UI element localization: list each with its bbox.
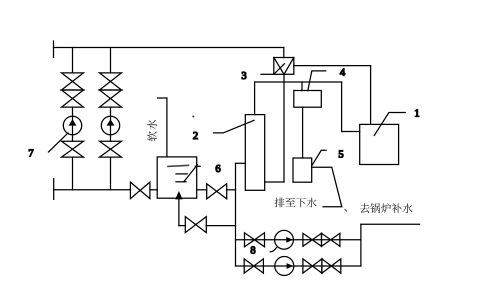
wire tank drain run [179, 225, 236, 227]
label leader 3 [261, 73, 274, 75]
label drain to sewer 排至下水 [275, 198, 317, 208]
boiler feed tank (item 1) [360, 124, 399, 164]
tank (soft water tank) [157, 157, 197, 198]
stray dot [192, 116, 194, 118]
pump P1 (vertical) [63, 116, 81, 134]
label leader 5 [312, 150, 326, 166]
valve line2 discharge B [322, 259, 341, 273]
wire cross header [255, 82, 342, 115]
wire column 2 bottom [110, 157, 112, 190]
wire discharge riser [360, 224, 362, 266]
wire suction manifold riser [236, 163, 246, 266]
ion exchanger column (item 2) [245, 115, 264, 191]
wire bottom-left header [54, 179, 158, 200]
wire to softener tank 1 [342, 82, 360, 132]
svg-text:6: 6 [215, 164, 220, 175]
label 7 [28, 149, 33, 160]
wire column 1 bottom [72, 157, 74, 190]
valve on bottom header [130, 182, 150, 199]
wire filter outlet down [265, 74, 284, 182]
valve column 1 lower [62, 141, 84, 157]
valve line2 discharge A [303, 259, 322, 273]
label leader 4 [308, 71, 326, 91]
valve column 2 lower [100, 141, 122, 157]
label 6 [215, 164, 220, 175]
valve line1 discharge B [322, 233, 340, 246]
valve line2 suction [244, 259, 263, 273]
svg-text:2: 2 [193, 131, 198, 142]
pump P3 (line 1) [275, 230, 294, 249]
drain leader line [312, 167, 342, 207]
pump P4 (line 2) [275, 257, 294, 276]
punctuation mark [344, 209, 347, 212]
pump P2 (vertical) [101, 116, 119, 134]
valve pair column 2 [100, 73, 122, 107]
wire column 1 drop [72, 48, 74, 73]
measuring box (item 5) [293, 158, 312, 182]
wire boiler make-up outlet [361, 223, 420, 225]
wire filter outlet right [294, 66, 371, 125]
wire column 2 mid [110, 107, 112, 141]
valve line1 suction [245, 233, 265, 247]
wire tank outlet [197, 189, 236, 191]
wire pump line 1 [236, 239, 361, 241]
svg-text:4: 4 [340, 67, 346, 78]
wire soft-water inlet [158, 98, 167, 157]
wire box4 to box5 [302, 107, 304, 158]
label leader 2 [214, 120, 255, 133]
label 3 [241, 71, 246, 82]
svg-text:3: 3 [241, 71, 246, 82]
label 4 [340, 67, 346, 78]
wire pump line 2 [236, 265, 361, 267]
wire top supply header [54, 41, 284, 58]
valve line1 discharge A [303, 233, 322, 246]
svg-text:5: 5 [338, 149, 343, 160]
svg-text:7: 7 [28, 149, 33, 160]
label 8 [250, 246, 255, 257]
svg-text:1: 1 [414, 109, 419, 120]
label soft water 软水 [147, 120, 157, 141]
valve V6 [207, 184, 227, 199]
tank bottom inlet arrow [175, 191, 182, 226]
valve tank drain [185, 217, 206, 233]
wire column 1 mid [72, 107, 74, 141]
level gauge marks in tank [168, 165, 200, 182]
wire column 2 drop [110, 48, 112, 73]
label 5 [338, 149, 343, 160]
label leader 7 [49, 133, 69, 152]
label to boiler make-up water 去锅炉补水 [360, 203, 413, 213]
label leader 8 [270, 248, 276, 252]
salt dissolver (item 4) [294, 91, 322, 108]
svg-text:8: 8 [250, 246, 255, 257]
filter F1 (item 3) [274, 58, 294, 75]
label 2 [193, 131, 198, 142]
label leader 1 [374, 113, 405, 136]
valve pair column 1 [62, 73, 84, 107]
label 1 [414, 109, 419, 120]
